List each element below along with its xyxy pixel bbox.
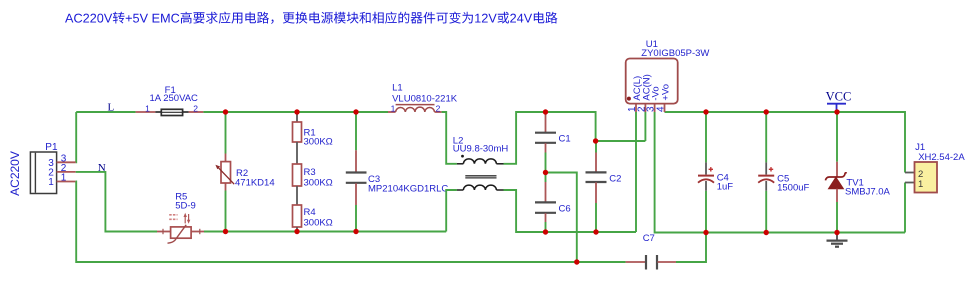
svg-text:UU9.8-30mH: UU9.8-30mH [453, 143, 509, 154]
resistor R4 [293, 186, 333, 232]
node L label [108, 102, 115, 114]
power module U1 [626, 39, 710, 112]
junction C6 bottom [543, 229, 548, 234]
capacitor C1 [535, 112, 571, 173]
capacitor C4 [698, 112, 733, 233]
svg-text:2: 2 [193, 104, 198, 114]
svg-text:1A 250VAC: 1A 250VAC [149, 93, 198, 104]
svg-text:R4: R4 [304, 207, 316, 218]
wire J1 pin1 down to ground rail [904, 183, 906, 233]
power port VCC [826, 90, 852, 111]
wire top rail fuse to L1 [203, 111, 388, 113]
fuse F1 [136, 85, 204, 115]
thermistor R5 [157, 192, 204, 244]
svg-text:300KΩ: 300KΩ [304, 177, 333, 188]
wire N rail riser to L2 bottom winding [446, 190, 457, 232]
junction C3 bottom [353, 229, 358, 234]
svg-text:1500uF: 1500uF [777, 182, 809, 193]
svg-text:1: 1 [48, 177, 54, 188]
junction C4 bottom / C7 riser [703, 230, 708, 235]
resistor R1 [293, 112, 333, 148]
junction earth tap [574, 259, 579, 264]
svg-text:SMBJ7.0A: SMBJ7.0A [845, 187, 891, 198]
svg-text:C1: C1 [559, 133, 571, 144]
junction C5 top [764, 109, 769, 114]
wire N: P1 pin2 to bottom rail [76, 172, 157, 232]
wire earth tap from C1-C6 midpoint [546, 173, 577, 263]
junction R2 bottom [223, 229, 228, 234]
wire L2 top out riser to rail [504, 112, 646, 164]
wire U1 pin2 riser [644, 112, 646, 141]
svg-text:N: N [98, 162, 106, 174]
svg-text:C2: C2 [609, 173, 621, 184]
capacitor C2 [586, 141, 622, 232]
svg-text:1: 1 [918, 179, 923, 190]
svg-text:C6: C6 [559, 204, 571, 215]
wire L: P1 pin3 riser to top rail [75, 112, 78, 162]
svg-text:1: 1 [145, 104, 150, 114]
svg-text:P1: P1 [45, 142, 58, 153]
wire earth rail C7 to ground riser [676, 233, 706, 263]
svg-text:300KΩ: 300KΩ [304, 137, 333, 148]
wire U1 pin1 riser [635, 112, 637, 232]
svg-text:5D-9: 5D-9 [175, 201, 196, 212]
svg-text:471KD14: 471KD14 [235, 178, 275, 189]
svg-text:300KΩ: 300KΩ [304, 218, 333, 229]
resistor R3 [293, 142, 333, 188]
TVS diode TV1 [826, 112, 891, 233]
svg-text:R3: R3 [304, 167, 316, 178]
junction R1 top [294, 109, 299, 114]
svg-text:1uF: 1uF [717, 182, 734, 193]
junction C5 bottom [764, 230, 769, 235]
junction C4 top [703, 109, 708, 114]
wire N rail R5 to L2 [204, 231, 446, 233]
title text [65, 12, 558, 24]
wire U1 pin4 VCC rail [665, 112, 906, 173]
capacitor C7 [626, 233, 676, 270]
svg-text:MP2104KGD1RLC: MP2104KGD1RLC [368, 183, 448, 194]
ground symbol [827, 233, 848, 247]
svg-text:ZY0IGB05P-3W: ZY0IGB05P-3W [641, 48, 709, 59]
connector P1 [8, 142, 76, 196]
junction VCC TV1 top [834, 109, 839, 114]
junction C2 bottom [593, 229, 598, 234]
node N label [98, 162, 106, 174]
varistor R2 [215, 112, 274, 232]
capacitor C3 [346, 112, 449, 232]
junction R4 bottom [294, 229, 299, 234]
connector J1 [905, 142, 965, 192]
inductor L1 [388, 82, 458, 113]
svg-text:L1: L1 [392, 82, 403, 93]
wire L2 bottom out to mid rail [504, 190, 637, 232]
svg-text:VCC: VCC [826, 90, 852, 104]
junction C2 top [593, 138, 598, 143]
junction TV1 bottom / ground [834, 230, 839, 235]
svg-text:C7: C7 [643, 233, 655, 244]
junction C1 top [543, 109, 548, 114]
svg-text:4: 4 [656, 106, 667, 112]
svg-text:L: L [108, 102, 115, 114]
svg-text:VLU0810-221K: VLU0810-221K [392, 94, 458, 105]
junction R2 top [223, 109, 228, 114]
wire U1 pin3 to DC ground rail [655, 112, 905, 233]
svg-text:1: 1 [391, 104, 396, 114]
capacitor C5 [758, 112, 809, 233]
common-mode choke L2 [453, 136, 509, 190]
svg-text:XH2.54-2A: XH2.54-2A [918, 152, 965, 163]
capacitor C6 [535, 173, 571, 233]
wire L1 to L2 top winding [442, 112, 457, 164]
svg-text:2: 2 [436, 104, 441, 114]
wire earth: P1 pin1 down to earth rail [76, 182, 626, 263]
svg-text:+Vo: +Vo [661, 84, 672, 101]
junction C1-C6 midpoint [543, 170, 548, 175]
svg-text:AC220V: AC220V [8, 151, 22, 196]
svg-text:1: 1 [61, 173, 67, 184]
junction C3 top [353, 109, 358, 114]
wire top rail to fuse [76, 111, 135, 113]
